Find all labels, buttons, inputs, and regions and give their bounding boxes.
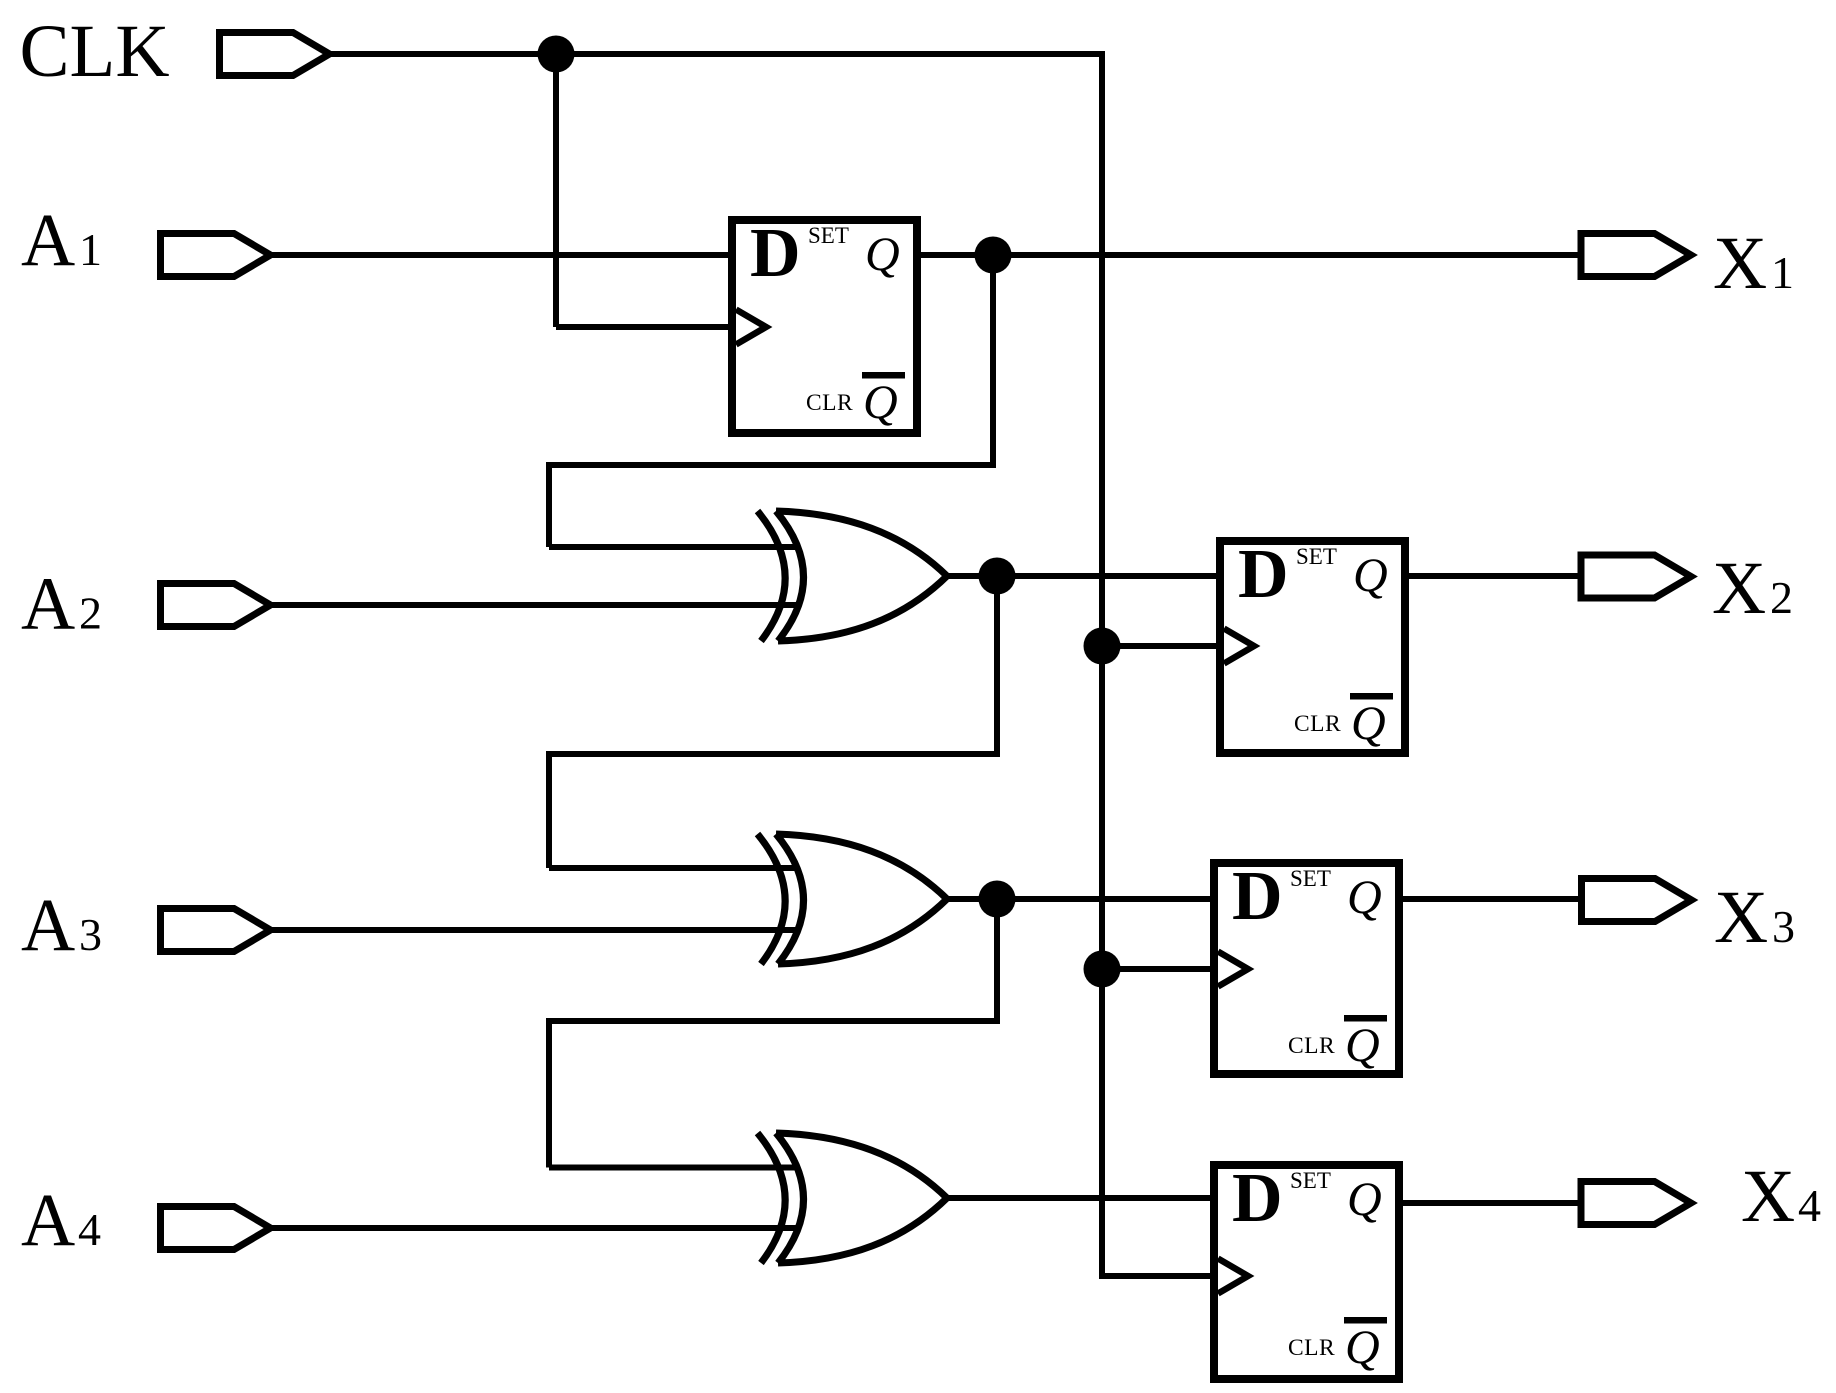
U3 clock input triangle (1218, 952, 1248, 987)
wire feedback U1-Q vertical drop (990, 255, 996, 465)
XOR gate G2 input arc (758, 834, 786, 964)
XOR gate G1 body (776, 511, 947, 641)
svg-text:Q: Q (1345, 1321, 1380, 1374)
wire feedback U1-Q horizontal left (549, 462, 996, 468)
svg-text:SET: SET (1290, 866, 1331, 891)
wire feedback G2 vertical left drop (546, 1018, 552, 1168)
svg-text:Q: Q (1353, 549, 1388, 602)
junction G1 output feedback (979, 558, 1016, 595)
wire U3 Q to X3 (1395, 896, 1581, 902)
XOR gate G3 input arc (758, 1133, 786, 1263)
output port X1 (1581, 234, 1691, 277)
U4 Q-bar overline (1344, 1317, 1387, 1324)
D flip-flop U1 box (732, 220, 917, 433)
junction U1 Q feedback (975, 237, 1012, 274)
wire U2 Q to X2 (1401, 573, 1581, 579)
U4 clock input triangle (1218, 1259, 1248, 1294)
svg-text:Q: Q (863, 376, 898, 429)
wire feedback G1 vertical drop (994, 576, 1000, 754)
svg-text:SET: SET (808, 223, 849, 248)
svg-text:Q: Q (1345, 1019, 1380, 1072)
D flip-flop U4 box (1214, 1165, 1399, 1379)
wire feedback U1-Q vertical left drop (546, 462, 552, 547)
U2 clock input triangle (1224, 629, 1254, 664)
svg-text:A3: A3 (21, 884, 102, 967)
U2 Q-bar overline (1350, 693, 1393, 700)
wire feedback G2 vertical drop (994, 899, 1000, 1021)
wire CLK to U2 clock (1102, 643, 1224, 649)
wire CLK to U4 clock (1099, 1273, 1218, 1279)
wire feedback G2 into G3 top input (549, 1165, 797, 1171)
wire A2 to G1 bottom input (270, 602, 797, 608)
wire feedback G1 into G2 top input (549, 865, 797, 871)
wire feedback U1-Q into G1 top input (549, 544, 797, 550)
wire CLK to U3 clock (1102, 966, 1218, 972)
wire G2 output to U3 D input (947, 896, 1218, 902)
svg-text:A4: A4 (21, 1179, 101, 1262)
svg-text:X1: X1 (1713, 222, 1794, 305)
svg-text:Q: Q (1347, 1173, 1382, 1226)
input port A2 (161, 584, 271, 627)
input port A1 (161, 234, 271, 277)
XOR gate G3 body (776, 1133, 947, 1263)
D flip-flop U2 box (1220, 541, 1405, 753)
input port A4 (161, 1207, 271, 1250)
svg-text:CLR: CLR (1288, 1033, 1335, 1059)
wire CLK branch vertical to U1 (553, 54, 559, 327)
svg-text:A2: A2 (21, 563, 102, 646)
D flip-flop U3 box (1214, 863, 1399, 1074)
svg-text:CLR: CLR (1294, 711, 1341, 737)
wire A3 to G2 bottom input (270, 927, 797, 933)
svg-text:A1: A1 (21, 199, 102, 282)
input port CLK (220, 33, 330, 76)
junction CLK at U2 clock (1084, 628, 1121, 665)
svg-text:X2: X2 (1712, 547, 1793, 630)
svg-text:D: D (1232, 1160, 1283, 1237)
svg-text:CLK: CLK (20, 10, 170, 93)
junction CLK at U3 clock (1084, 951, 1121, 988)
wire G1 output to U2 D input (947, 573, 1224, 579)
U1 clock input triangle (736, 310, 766, 345)
output port X2 (1581, 555, 1691, 598)
svg-text:D: D (1238, 536, 1289, 613)
wire G3 output to U4 D input (947, 1195, 1218, 1201)
U3 Q-bar overline (1344, 1015, 1387, 1022)
XOR gate G2 body (776, 834, 947, 964)
wire CLK vertical trunk (1099, 51, 1105, 1276)
output port X4 (1581, 1182, 1691, 1225)
wire feedback G1 vertical left drop (546, 751, 552, 868)
wire feedback G2 horizontal left (549, 1018, 1000, 1024)
svg-text:Q: Q (1351, 697, 1386, 750)
svg-text:X3: X3 (1714, 876, 1795, 959)
svg-text:Q: Q (865, 228, 900, 281)
wire feedback G1 horizontal left (549, 751, 1000, 757)
svg-text:D: D (750, 215, 801, 292)
svg-text:SET: SET (1290, 1168, 1331, 1193)
XOR gate G1 input arc (758, 511, 786, 641)
wire CLK horizontal trunk (330, 51, 1102, 57)
wire U4 Q to X4 (1396, 1200, 1581, 1206)
wire A1 to U1 D input (270, 252, 736, 258)
U1 Q-bar overline (862, 372, 905, 379)
wire U1 Q to X1 (913, 252, 1581, 258)
junction G2 output feedback (979, 881, 1016, 918)
svg-text:CLR: CLR (1288, 1335, 1335, 1361)
svg-text:D: D (1232, 858, 1283, 935)
svg-text:CLR: CLR (806, 390, 853, 416)
svg-text:SET: SET (1296, 544, 1337, 569)
input port A3 (161, 909, 271, 952)
wire A4 to G3 bottom input (270, 1225, 797, 1231)
svg-text:Q: Q (1347, 871, 1382, 924)
junction CLK branch (538, 36, 575, 73)
svg-text:X4: X4 (1741, 1155, 1821, 1238)
output port X3 (1582, 879, 1692, 922)
wire CLK branch horizontal to U1 clock (556, 324, 736, 330)
